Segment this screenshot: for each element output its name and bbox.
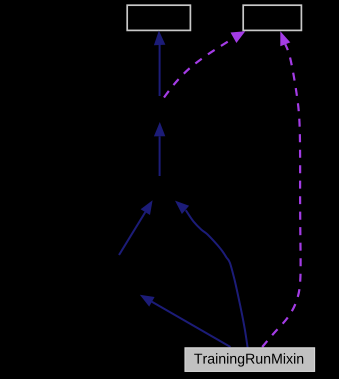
label TrainingRunMixin [194, 353, 303, 366]
edge b: solid inheritance arrow, node2 to node1 [154, 122, 165, 176]
edge c: solid inheritance arrow, left node3 to node2 [119, 200, 153, 255]
edge f: dashed template-relation curve, node1 to top-right box [164, 31, 245, 97]
node box TrainingRunMixin (current class, grey filled) [185, 348, 315, 372]
node box Attrs (top-right, label invisible on black) [243, 5, 301, 30]
edge a: solid inheritance arrow, mid node to top-left box [154, 31, 166, 97]
node box Run (top-left, label invisible on black) [127, 5, 190, 30]
edge e: solid inheritance arrow, TrainingRunMixin to left node3 [140, 295, 231, 347]
edge g: dashed template-relation curve, TrainingRunMixin up right side to top-right box [262, 31, 300, 347]
edge d: solid inheritance curve, TrainingRunMixin to node2 [175, 201, 248, 348]
